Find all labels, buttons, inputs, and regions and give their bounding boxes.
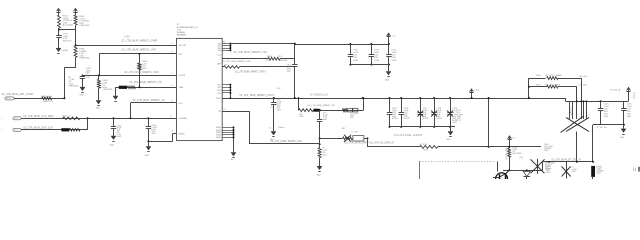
svg-text:02_LTR_MUR_WRMT1_DNT: 02_LTR_MUR_WRMT1_DNT bbox=[223, 61, 252, 63]
power flag VDD_1V8 second bbox=[75, 9, 77, 16]
resistor R302 (pull-up) bbox=[74, 15, 77, 25]
wire ANT_CONN to matching network bbox=[14, 98, 64, 100]
ground below R305 bbox=[96, 101, 101, 105]
svg-text:02_LTR_MUR_SLP_CLK: 02_LTR_MUR_SLP_CLK bbox=[24, 126, 54, 129]
resistor R303 to matching network bbox=[74, 46, 77, 57]
capacitor C320 bbox=[600, 101, 602, 108]
resistor R320 bbox=[547, 77, 558, 80]
resistor R314 series bbox=[420, 145, 438, 148]
svg-text:XOUT: XOUT bbox=[216, 98, 222, 100]
junction bottom C315 bbox=[389, 126, 391, 128]
wire to ground right bbox=[623, 125, 625, 129]
svg-text:02_LTR_MUR_WRMT1_RD: 02_LTR_MUR_WRMT1_RD bbox=[270, 141, 302, 143]
junction rail/C311 bbox=[349, 43, 351, 45]
junction rail/C310 bbox=[294, 97, 296, 99]
junction rail left matching bbox=[298, 97, 300, 99]
junction dots on rail jog bbox=[576, 100, 578, 102]
wire RD from IC down to bottom route bbox=[222, 111, 249, 113]
junction at R301 bottom bbox=[58, 29, 60, 31]
svg-text:0402: 0402 bbox=[620, 137, 624, 139]
svg-text:0402: 0402 bbox=[14, 118, 18, 120]
X mark over Q302 bbox=[531, 159, 545, 173]
wire C314 chain bbox=[319, 110, 321, 119]
junction ANT node bbox=[63, 97, 65, 99]
inductor L301 squiggle bbox=[128, 86, 136, 89]
wire ANTX from IC bbox=[222, 66, 223, 68]
svg-text:NC2: NC2 bbox=[217, 87, 221, 89]
wire SLP_CLK to junction bbox=[21, 129, 87, 131]
wire DET bbox=[544, 161, 594, 163]
svg-text:02_LTR_MUR_WRMT1_VDD: 02_LTR_MUR_WRMT1_VDD bbox=[125, 71, 160, 74]
capacitor C315 bbox=[389, 98, 391, 112]
svg-text:0402: 0402 bbox=[604, 116, 608, 118]
svg-text:DN 1/16W: DN 1/16W bbox=[512, 153, 521, 155]
wire power flag to rail bbox=[388, 39, 390, 44]
junction base/diode bbox=[526, 169, 528, 171]
svg-text:0402: 0402 bbox=[300, 116, 304, 118]
off-page connector SLEEP_CLK bbox=[13, 128, 21, 131]
svg-text:0402: 0402 bbox=[80, 95, 84, 97]
junction secondary/C320 bbox=[600, 100, 602, 102]
riser to rail bbox=[488, 98, 490, 147]
pin stubs GND1-GND5 bbox=[222, 127, 233, 129]
transistor base stub bbox=[493, 177, 499, 179]
wire PWR net to IC pin 9 bbox=[76, 45, 177, 47]
wire XO to IC pin 2 bbox=[115, 87, 176, 89]
junction C304 bottom bbox=[147, 140, 149, 142]
power flag Q301 bias bbox=[509, 136, 511, 140]
wire bank to ground bbox=[388, 65, 390, 72]
junction rail/C312 bbox=[370, 43, 372, 45]
junction bias/ANTLM wire bbox=[508, 146, 510, 148]
junction VD rail at C310 chain bbox=[294, 43, 296, 45]
junction bottom C316 bbox=[400, 126, 402, 128]
svg-text:LP_AVDD33_1v8: LP_AVDD33_1v8 bbox=[310, 94, 329, 97]
dashed group border bbox=[420, 161, 494, 163]
capacitor C319 (DNI) bbox=[450, 98, 452, 112]
svg-text:FB? 3.6nH: FB? 3.6nH bbox=[42, 96, 52, 98]
svg-text:DNI: DNI bbox=[350, 117, 354, 119]
svg-text:WLBGA: WLBGA bbox=[177, 31, 185, 34]
wire R330 down to base wire bbox=[509, 157, 511, 170]
wire ANT net to IC pin 6 bbox=[99, 53, 176, 55]
svg-text:724chm: 724chm bbox=[278, 127, 285, 129]
svg-text:0402: 0402 bbox=[316, 174, 320, 176]
ground below C306 bbox=[271, 132, 276, 136]
resistor R330 vertical bbox=[508, 148, 511, 157]
svg-text:02_LTR_MUR_WRMT(1)_ANTLM_MAIN_: 02_LTR_MUR_WRMT(1)_ANTLM_MAIN_R bbox=[345, 142, 395, 145]
svg-text:DNI: DNI bbox=[570, 114, 574, 116]
junction rail/NC bus bbox=[230, 97, 232, 99]
off-page connector CLK_REQ bbox=[13, 117, 21, 120]
capacitor C303 bbox=[113, 118, 115, 126]
svg-text:CLKREQ: CLKREQ bbox=[179, 118, 188, 120]
svg-text:1%: 1% bbox=[270, 107, 273, 109]
junction VDD/R305 bbox=[98, 74, 100, 76]
power flag LP_AVDD on rail bbox=[471, 89, 473, 98]
svg-text:C0JB: C0JB bbox=[392, 60, 398, 62]
svg-text:0402: 0402 bbox=[277, 109, 281, 111]
capacitor C311 bbox=[350, 44, 352, 55]
wire bank bottom to ground bbox=[450, 127, 452, 131]
wire Q302 to DET bbox=[542, 161, 544, 163]
ferrite bead FB303 bbox=[313, 109, 319, 112]
svg-text:MURATA: MURATA bbox=[177, 33, 186, 36]
junction base wire/R330 bbox=[508, 169, 510, 171]
power flag top right bbox=[628, 88, 630, 93]
svg-text:X5R: X5R bbox=[287, 71, 291, 73]
transistor Q301 (cut off at bottom) bbox=[496, 173, 508, 185]
ferrite bead FB305 below riser bbox=[591, 166, 595, 177]
svg-text:X5R 20%: X5R 20% bbox=[63, 40, 72, 42]
junction CLK/row2 bbox=[87, 117, 89, 119]
svg-text:C0JB: C0JB bbox=[374, 60, 380, 62]
capacitor C322 DNI below DET bbox=[566, 162, 568, 179]
wire net N3 bbox=[320, 138, 343, 140]
junction rail/C317 bbox=[419, 97, 421, 99]
svg-text:NOUR: NOUR bbox=[392, 118, 398, 120]
X mark DNI C318 bbox=[431, 111, 437, 117]
junction N3 right bbox=[366, 137, 368, 139]
svg-text:AC 1005M: AC 1005M bbox=[63, 24, 73, 27]
wire power flag to secondary rail bbox=[628, 93, 630, 101]
bank bottom wire bbox=[350, 64, 389, 66]
svg-text:LDO33: LDO33 bbox=[179, 75, 186, 77]
junction rail/C319 bbox=[449, 97, 451, 99]
junction rail/C313 bbox=[388, 43, 390, 45]
svg-text:NC1: NC1 bbox=[217, 84, 221, 86]
pin stubs NC1-NC4 bbox=[222, 84, 230, 86]
capacitor C313 bbox=[388, 44, 390, 55]
svg-text:02_LTR_MUR_WRMT1_XOUT: 02_LTR_MUR_WRMT1_XOUT bbox=[240, 95, 275, 97]
svg-text:DNI_0402: DNI_0402 bbox=[579, 85, 587, 87]
X mark over crystal Y301 (DNI) bbox=[566, 118, 589, 132]
riser from rail to branches bbox=[528, 78, 530, 98]
branch1 drop bbox=[581, 78, 583, 119]
drops from rail jog into cluster bbox=[569, 101, 571, 119]
ground below C302 bbox=[80, 87, 85, 91]
bus bar NC bbox=[230, 85, 232, 98]
wire C304 to ground bbox=[148, 141, 150, 146]
svg-text:VIO_RF: VIO_RF bbox=[179, 45, 187, 47]
svg-text:02_LTR_MUR_WRMT1_18: 02_LTR_MUR_WRMT1_18 bbox=[133, 99, 165, 102]
wire caps bottom bbox=[593, 124, 624, 126]
wire TX to vertical bbox=[280, 58, 295, 60]
ferrite bead FB302 bbox=[61, 128, 69, 131]
svg-text:LP_VDD_A: LP_VDD_A bbox=[610, 89, 621, 92]
junction CLK/18 branch bbox=[130, 117, 132, 119]
junction ANTLM/rail riser bbox=[488, 146, 490, 148]
svg-text:1.8: 1.8 bbox=[512, 138, 515, 140]
svg-text:02_LTR_MUR_ANT_CONN: 02_LTR_MUR_ANT_CONN bbox=[2, 93, 34, 96]
off-page connector ANT bbox=[5, 97, 14, 100]
branch1 wire right bbox=[558, 78, 581, 80]
X mark DNI C317 bbox=[417, 111, 423, 117]
capacitor C301 bbox=[56, 35, 61, 37]
svg-text:X5R: X5R bbox=[152, 133, 156, 135]
wire ANTLM right bbox=[438, 146, 489, 148]
junction rail/riser bbox=[488, 97, 490, 99]
junction C314/RD wire upper bbox=[319, 137, 321, 139]
power flag VDD_1V8 top-left bbox=[58, 9, 60, 16]
wire crystal down to DET wire bbox=[576, 132, 578, 162]
junction bottom C319 bbox=[449, 126, 451, 128]
branch1 wire bbox=[529, 78, 546, 80]
bank bottom rail bbox=[390, 126, 456, 128]
svg-text:GND5: GND5 bbox=[216, 137, 221, 139]
svg-text:0402: 0402 bbox=[596, 173, 600, 175]
junction VDD/C302 bbox=[82, 75, 84, 77]
svg-text:NOUR: NOUR bbox=[545, 169, 551, 171]
svg-text:0402: 0402 bbox=[546, 172, 550, 174]
capacitor C318 (DNI) bbox=[434, 98, 436, 112]
svg-text:NOUR: NOUR bbox=[437, 118, 443, 120]
wire CLK_REQ to IC pin 5 bbox=[21, 118, 176, 120]
svg-text:0402: 0402 bbox=[96, 108, 100, 110]
svg-text:02_LTR_MUR_WRMT1_PWR: 02_LTR_MUR_WRMT1_PWR bbox=[122, 39, 158, 42]
junction bottom C311 bbox=[349, 64, 351, 66]
wire bias down bbox=[509, 140, 511, 148]
svg-text:NC3: NC3 bbox=[217, 90, 221, 92]
wire C304 to IC pin 8 bbox=[148, 141, 172, 143]
bus bar VD bbox=[230, 44, 232, 51]
capacitor C306 from rail bbox=[273, 98, 275, 102]
resistor R301 (pull-up) bbox=[58, 15, 61, 28]
svg-text:VD4: VD4 bbox=[218, 50, 222, 52]
junction squares GND bus bbox=[233, 127, 235, 129]
inductor L302 on ANT wire bbox=[42, 97, 52, 100]
svg-text:1.8V: 1.8V bbox=[124, 34, 130, 38]
wire ANTX to C310 chain bbox=[239, 66, 294, 68]
wire down to antenna node bbox=[64, 68, 66, 99]
resistor R312 matching bbox=[343, 109, 348, 111]
wire down to row2 bbox=[87, 118, 89, 130]
diode D302 down bbox=[523, 171, 530, 176]
svg-text:_02_100_15k: _02_100_15k bbox=[594, 127, 606, 129]
cut-off component at right edge bbox=[633, 168, 635, 172]
base wire bbox=[503, 170, 542, 172]
junction DET left bbox=[548, 161, 550, 163]
svg-text:02_LTR_MUR_WRMT1_ANT: 02_LTR_MUR_WRMT1_ANT bbox=[122, 48, 157, 51]
wire TX from IC bbox=[222, 58, 268, 60]
resistor R307 series on CLK_REQ bbox=[63, 117, 80, 120]
wire ANTLM bbox=[367, 146, 419, 148]
wire ANTLM to bias cluster bbox=[489, 146, 541, 148]
ground below bank bbox=[386, 72, 391, 76]
ground below C321 bbox=[621, 129, 626, 133]
junction rail/C306 chain bbox=[273, 97, 275, 99]
resistor R321 bbox=[547, 85, 558, 88]
svg-text:02_LTR_MUR: 02_LTR_MUR bbox=[506, 147, 508, 159]
svg-text:NC4: NC4 bbox=[217, 93, 221, 95]
junction rail/C316 bbox=[400, 97, 402, 99]
junction bottom C312 bbox=[370, 64, 372, 66]
inductor L303 series bbox=[224, 66, 240, 69]
junction bottom C317 bbox=[419, 126, 421, 128]
wire from pull-ups down to PWR net bbox=[75, 30, 77, 46]
svg-text:1_05: 1_05 bbox=[276, 88, 280, 90]
svg-text:VIO: VIO bbox=[179, 54, 183, 56]
svg-text:0402: 0402 bbox=[323, 119, 327, 121]
svg-text:02_LTR_MUR_WRMT1_XO: 02_LTR_MUR_WRMT1_XO bbox=[129, 81, 162, 84]
svg-text:0201: 0201 bbox=[266, 60, 270, 62]
junction DET/riser bbox=[592, 161, 594, 163]
svg-text:AGND: AGND bbox=[63, 49, 69, 52]
wire N3 to junction bbox=[364, 138, 367, 140]
capacitor C302 bbox=[82, 74, 84, 77]
wire between junctions bbox=[319, 138, 321, 144]
X mark DNI C319 bbox=[447, 111, 453, 117]
svg-text:CHECKED: CHECKED bbox=[102, 89, 113, 91]
junction rail/branch riser bbox=[528, 97, 530, 99]
vertical joining TX to VD rail bbox=[294, 44, 296, 59]
capacitor C316 bbox=[401, 98, 403, 112]
ground below CO-PLACE bank bbox=[448, 132, 453, 136]
junction C314/RD wire lower bbox=[319, 143, 321, 145]
capacitor C314 bbox=[317, 119, 322, 121]
resistor R311 matching bbox=[299, 109, 314, 112]
wire drop left of matching row bbox=[298, 98, 300, 110]
wire VDD to IC pin 1 bbox=[82, 75, 176, 77]
svg-text:CHECKED: CHECKED bbox=[79, 58, 90, 60]
junction rail right matching bbox=[362, 97, 364, 99]
svg-text:NOUR: NOUR bbox=[423, 118, 429, 120]
branch2 wire right bbox=[558, 86, 577, 88]
IC U301 body bbox=[177, 38, 223, 140]
svg-text:(GND): (GND) bbox=[179, 133, 185, 135]
wire branch down from 18 net bbox=[130, 103, 132, 118]
svg-text:7.4: 7.4 bbox=[223, 109, 226, 111]
junction squares NC bus bbox=[230, 84, 232, 86]
junction bottom C313 bbox=[388, 64, 390, 66]
svg-text:0402: 0402 bbox=[110, 145, 114, 147]
junction caps bottom bbox=[623, 124, 625, 126]
ground below C303 bbox=[111, 136, 116, 140]
component box FB304 bbox=[353, 136, 364, 141]
wire drop right of matching row bbox=[363, 98, 365, 110]
junction ANT/R304 bbox=[138, 53, 140, 55]
power flag LP_VDD over bank bbox=[388, 33, 390, 39]
inductor L305 with DNI X bbox=[343, 137, 353, 140]
branch2 drop bbox=[576, 87, 578, 119]
ground below GND bus bbox=[231, 153, 236, 157]
svg-text:0402: 0402 bbox=[14, 129, 18, 131]
svg-text:02_LTR_MUR_WRMT1_N2: 02_LTR_MUR_WRMT1_N2 bbox=[308, 105, 336, 107]
junction bottom C318 bbox=[433, 126, 435, 128]
capacitor C304 bbox=[148, 118, 150, 126]
svg-text:0402 (G?): 0402 (G?) bbox=[43, 101, 53, 103]
svg-text:0201: 0201 bbox=[452, 122, 456, 124]
ground below R313 bbox=[317, 166, 322, 170]
series capacitor C310 on vertical bbox=[294, 59, 296, 64]
svg-text:02_LTR_MUR_CLK_REQ: 02_LTR_MUR_CLK_REQ bbox=[24, 115, 54, 118]
junction branch2 bbox=[528, 86, 530, 88]
wire matching middle bbox=[319, 110, 363, 112]
ferrite bead FB301 on XO wire bbox=[119, 86, 127, 89]
svg-text:CHECKED: CHECKED bbox=[69, 85, 79, 87]
wire X to DET corner bbox=[542, 162, 544, 171]
resistor R305 to ground bbox=[98, 75, 100, 79]
wire VD rail to decoupling bank bbox=[230, 43, 294, 45]
svg-text:TXO: TXO bbox=[217, 55, 221, 57]
svg-text:(G#): (G#) bbox=[519, 157, 523, 159]
svg-text:C0G: C0G bbox=[86, 77, 91, 79]
junction DET/crystal drop bbox=[576, 161, 578, 163]
svg-text:0402: 0402 bbox=[544, 150, 548, 152]
ground below C304 bbox=[146, 147, 151, 151]
wire across matching bottom bbox=[64, 67, 75, 69]
svg-text:CO-PLACE CAPS: CO-PLACE CAPS bbox=[394, 133, 422, 137]
ground below XO stub bbox=[113, 96, 118, 100]
svg-text:0402: 0402 bbox=[446, 139, 450, 141]
svg-text:CHECKED: CHECKED bbox=[79, 25, 90, 27]
svg-text:0402: 0402 bbox=[145, 155, 149, 157]
svg-text:30: 30 bbox=[223, 41, 225, 43]
wire XO left stub with ground bbox=[115, 87, 117, 96]
branch2 wire bbox=[529, 86, 547, 88]
X mark extra diagonal bbox=[561, 117, 584, 133]
junction CLK/C304 bbox=[147, 117, 149, 119]
svg-text:FB?: FB? bbox=[342, 128, 346, 130]
wire ANT node down to XO wire bbox=[99, 54, 101, 76]
inductor squiggle after FB302 bbox=[69, 129, 80, 132]
capacitor C317 (DNI) bbox=[420, 98, 422, 112]
svg-text:WL_HOST_WAKE: WL_HOST_WAKE bbox=[545, 74, 562, 77]
svg-text:0402: 0402 bbox=[385, 80, 389, 82]
wire collector riser bbox=[497, 161, 499, 171]
X mark over C322 bbox=[562, 166, 571, 176]
capacitor C312 bbox=[371, 44, 373, 55]
bus bar GND bbox=[233, 127, 235, 152]
svg-text:LPO: LPO bbox=[179, 103, 183, 105]
svg-text:X5R: X5R bbox=[572, 171, 576, 173]
wire jog down bbox=[367, 138, 369, 147]
junction CLK/C303 bbox=[113, 117, 115, 119]
svg-text:DNI_0402: DNI_0402 bbox=[579, 76, 587, 78]
wire RD lower join bbox=[319, 143, 321, 145]
svg-text:02_LTR_MUR_WRMT1_TX0: 02_LTR_MUR_WRMT1_TX0 bbox=[234, 51, 268, 54]
ground below C301 bbox=[56, 48, 61, 52]
main rail wire XOUT/AVDD bbox=[222, 98, 566, 100]
junction PWR/R303 bbox=[75, 44, 77, 46]
svg-text:GND4: GND4 bbox=[216, 134, 221, 136]
wire riser caps-bottom to DET bbox=[592, 125, 594, 162]
capacitor C321 bbox=[623, 101, 625, 108]
svg-text:CHECKED: CHECKED bbox=[278, 60, 288, 62]
svg-text:GND1: GND1 bbox=[216, 127, 221, 129]
dashed group border vertical bbox=[419, 161, 421, 179]
svg-text:NOUR: NOUR bbox=[404, 118, 410, 120]
resistor R304 series bbox=[139, 54, 141, 63]
junction rail/C315 bbox=[389, 97, 391, 99]
wire joining pull-ups bbox=[59, 29, 76, 31]
wire FB305 down bbox=[592, 177, 594, 179]
junction XO/R304 bbox=[138, 86, 140, 88]
junction rail power flag bbox=[471, 97, 473, 99]
wire down to C301 bbox=[58, 30, 60, 36]
svg-text:02_LTR_MUR_WRMT1_ANTX: 02_LTR_MUR_WRMT1_ANTX bbox=[235, 70, 266, 73]
pin stubs VD1-VD4 bbox=[222, 43, 230, 45]
component Q302 body DNI bbox=[537, 159, 539, 174]
svg-text:C0JB: C0JB bbox=[353, 60, 359, 62]
junction squares VD bus bbox=[230, 43, 232, 45]
svg-text:L? 1nH: L? 1nH bbox=[352, 131, 359, 133]
svg-text:ANT1: ANT1 bbox=[6, 97, 11, 100]
wire 18 net to IC pin 3 bbox=[131, 102, 177, 104]
junction rail/C318 bbox=[433, 97, 435, 99]
svg-text:0402: 0402 bbox=[627, 116, 631, 118]
svg-text:1.8_A: 1.8_A bbox=[474, 89, 480, 92]
